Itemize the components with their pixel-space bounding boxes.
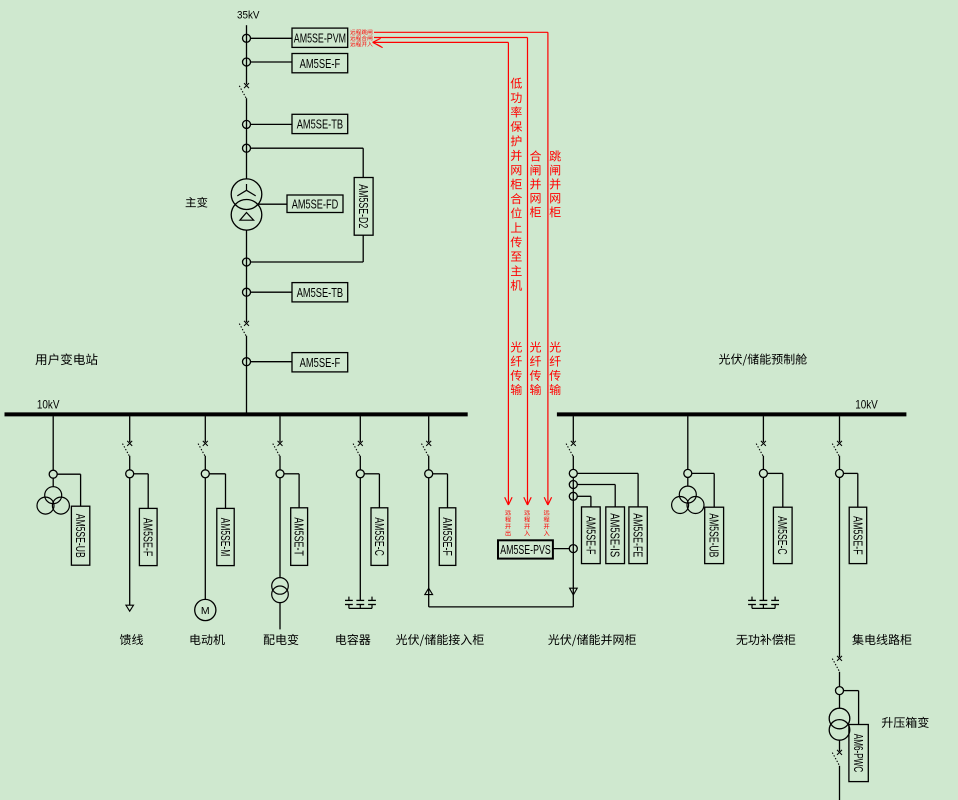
relay box AM5SE-PVM U1 — [292, 28, 348, 47]
label 配电变 — [264, 634, 299, 645]
svg-text:AM5SE-TB: AM5SE-TB — [297, 117, 343, 132]
svg-text:AM5SE-UB: AM5SE-UB — [707, 513, 722, 557]
bus: 10kV left busbar — [5, 412, 468, 416]
red signal line 2 (合闸并网柜) — [374, 38, 531, 506]
relay box AM5SE-TB U3 — [292, 114, 348, 133]
label 光伏/储能预制舱 — [719, 353, 807, 365]
wire R3 tap — [767, 473, 783, 507]
svg-text:AM5SE-UB: AM5SE-UB — [73, 514, 88, 558]
wire: loop to AM5SE-D2 — [250, 148, 363, 262]
svg-text:AM5SE-FD: AM5SE-FD — [292, 196, 338, 211]
feeder L3 wire from bus — [204, 416, 206, 469]
breaker switch L6 switch — [422, 441, 432, 457]
label 光伏/储能并网柜 — [548, 634, 636, 646]
relay box AM5SE-PVS U17 — [498, 540, 553, 558]
svg-text:AM5SE-F: AM5SE-F — [300, 355, 341, 370]
red signal line 1 (跳闸并网柜) — [374, 32, 552, 505]
boost transformer T3 升压箱变 — [829, 708, 850, 740]
svg-text:AM5SE-C: AM5SE-C — [775, 516, 790, 555]
wire R4 below transformer — [839, 740, 841, 751]
label 光伏/储能接入柜 — [396, 634, 484, 646]
node circle L5 — [356, 470, 364, 478]
wire L2 down to arrow — [129, 478, 131, 606]
svg-text:AM5SE-F: AM5SE-F — [440, 517, 455, 556]
svg-text:AM5SE-D2: AM5SE-D2 — [356, 184, 371, 228]
red vertical label 低功率保护并网柜合位上传至主机 — [511, 78, 523, 291]
PT 3-winding transformer PT1 — [37, 487, 69, 514]
svg-text:AM5SE-F: AM5SE-F — [300, 56, 341, 71]
motor M1 — [195, 599, 216, 620]
relay box AM5SE-T U11 (vertical) — [291, 508, 308, 566]
label 无功补偿柜 — [736, 634, 795, 645]
relay box AM5SE-FD U5 — [287, 195, 343, 213]
relay box AM5SE-TB U6 — [292, 283, 348, 302]
capacitor bank C1 — [345, 597, 376, 609]
wire L3 down to motor — [204, 478, 206, 600]
feeder R3 wire — [762, 416, 764, 600]
wire L5 tap — [364, 474, 379, 508]
label 电容器 — [336, 634, 370, 645]
svg-text:AM5SE-T: AM5SE-T — [292, 517, 307, 556]
relay box AM5SE-D2 U4 (vertical) — [354, 178, 373, 236]
node circle R4 — [836, 469, 844, 477]
wire L6 down to arrow — [428, 478, 430, 607]
svg-text:AM5SE-TB: AM5SE-TB — [297, 285, 343, 300]
breaker switch L5 switch — [353, 441, 363, 457]
relay box AM5SE-F U13 (vertical) — [439, 508, 456, 566]
wire: 35kV incomer vertical segments — [246, 25, 248, 413]
capacitor bank C2 — [748, 597, 779, 609]
wire L5 down to capacitor — [359, 478, 361, 601]
wire L4 down to transformer — [279, 478, 281, 578]
svg-text:AM5SE-F: AM5SE-F — [141, 518, 156, 557]
node circles R1 — [569, 469, 577, 552]
wire L4 below transformer — [279, 603, 281, 630]
red vertical label 跳闸并网柜 — [550, 150, 561, 217]
relay box AM5SE-C U12 (vertical) — [371, 508, 388, 566]
feeder L5 wire from bus — [359, 416, 361, 469]
breaker switch R1 switch — [566, 441, 576, 457]
open triangle arrow down R1 — [570, 588, 578, 595]
feeder L2 wire from bus — [129, 416, 131, 469]
feeder R4 wire — [839, 416, 841, 657]
feeder R1 wire — [572, 416, 574, 588]
svg-text:AM5SE-PVS: AM5SE-PVS — [500, 542, 551, 557]
wire PVS link — [553, 548, 570, 550]
relay box AM5SE-F U2 — [292, 54, 348, 73]
feeder L1 wire (PT bay) — [52, 416, 54, 487]
relay box AM5SE-UB U18 (vertical) — [705, 507, 724, 563]
feeder L4 wire from bus — [279, 416, 281, 469]
relay box AM5SE-C U19 (vertical) — [773, 507, 792, 563]
svg-text:M: M — [201, 605, 210, 617]
wire L6 tap — [433, 474, 448, 508]
wire R4 bottom — [839, 766, 841, 800]
wire R4 mid — [839, 672, 841, 687]
svg-text:AM5SE-M: AM5SE-M — [218, 518, 233, 557]
breaker switch R4 switch 2 — [832, 656, 842, 672]
node circle L3 — [201, 470, 209, 478]
red vertical label 合闸并网柜 — [530, 150, 541, 217]
svg-text:AM5SE-PVM: AM5SE-PVM — [294, 31, 346, 46]
svg-text:10kV: 10kV — [37, 397, 60, 411]
svg-text:AM5SE-C: AM5SE-C — [372, 517, 387, 556]
distribution transformer T2 — [272, 578, 289, 603]
label 馈线 — [120, 634, 143, 645]
svg-text:AM5SE-F: AM5SE-F — [850, 516, 865, 555]
wire L4 tap — [284, 474, 299, 508]
wire R1 taps — [577, 473, 638, 507]
bus: 10kV right busbar — [557, 412, 907, 416]
relay box AM5SE-F U20 (vertical) — [849, 507, 867, 563]
node circle L4 — [276, 470, 284, 478]
feeder R2 wire — [687, 416, 689, 486]
label 升压箱变 — [882, 717, 929, 728]
breaker switch QF1 — [239, 83, 249, 99]
label 集电线路柜 — [852, 634, 911, 645]
label 用户变电站 — [35, 353, 97, 365]
svg-text:10kV: 10kV — [855, 397, 878, 411]
relay box AM5SE-F U14 (vertical) — [582, 507, 601, 564]
wire R4 to transformer — [839, 695, 841, 709]
relay box AM6-PWC U21 (vertical) — [849, 725, 868, 782]
node: CT circles on 35kV feeder — [243, 34, 251, 365]
main transformer 主变 T1 (wye-delta) — [231, 179, 262, 230]
wire L2 tap — [134, 474, 149, 509]
breaker switch L4 switch — [273, 441, 283, 457]
node circle L6 — [425, 470, 433, 478]
red tiny vertical labels above AM5SE-PVS — [505, 510, 549, 536]
wire L1 tap — [57, 474, 80, 506]
svg-text:AM5SE-FE: AM5SE-FE — [631, 513, 646, 557]
node circle R2 — [684, 469, 692, 477]
breaker switch L2 switch — [123, 441, 133, 457]
red vertical labels 光纤传输 x3 — [511, 341, 561, 395]
relay box AM5SE-M U10 (vertical) — [217, 508, 234, 565]
wire R4 tap — [843, 473, 858, 507]
wire: PV tie line — [429, 588, 574, 607]
feeder arrow (open) L2 — [126, 605, 134, 611]
wire: transformer to AM5SE-FD — [259, 203, 288, 205]
relay box AM5SE-UB U8 (vertical) — [71, 506, 89, 565]
open triangle arrow up L6 — [425, 588, 433, 594]
node circle R4b — [836, 687, 844, 695]
label 电动机 — [191, 634, 225, 645]
breaker switch R3 switch — [756, 441, 766, 457]
red tiny labels near AM5SE-PVM — [350, 29, 372, 46]
PT 3-winding transformer PT2 — [672, 486, 704, 513]
node circle L2 — [126, 470, 134, 478]
svg-text:AM6-PWC: AM6-PWC — [851, 734, 866, 773]
red signal line 3 (低功率保护) with left arrow — [373, 38, 512, 505]
breaker switch R4 switch 3 — [832, 750, 842, 766]
relay box AM5SE-F U7 — [292, 353, 348, 372]
breaker switch L3 switch — [198, 441, 208, 457]
relay box AM5SE-IS U15 (vertical) — [606, 507, 625, 564]
svg-text:AM5SE-IS: AM5SE-IS — [608, 513, 623, 557]
breaker switch QF2 — [239, 321, 249, 337]
svg-text:AM5SE-F: AM5SE-F — [583, 516, 598, 555]
label 主变 — [186, 197, 208, 208]
wire: taps to relay boxes — [250, 38, 292, 361]
breaker switch R4 switch 1 — [832, 441, 842, 457]
relay box AM5SE-FE U16 (vertical) — [629, 507, 647, 564]
wire R2 tap — [692, 473, 715, 507]
svg-text:35kV: 35kV — [237, 9, 260, 21]
relay box AM5SE-F U9 (vertical) — [139, 508, 157, 565]
node circle R3 — [759, 469, 767, 477]
wire L3 tap — [209, 474, 225, 509]
feeder L6 wire from bus — [428, 416, 430, 469]
wire R4 tap to AM6-PWC — [843, 691, 858, 725]
node circle L1 — [49, 470, 57, 478]
